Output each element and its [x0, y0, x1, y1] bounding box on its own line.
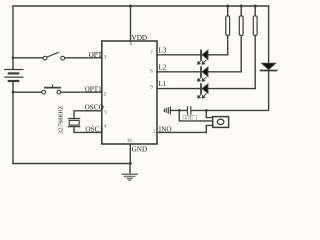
wire cap left — [170, 109, 187, 111]
wire branch to mic mid — [179, 110, 212, 121]
wire right rail lower — [191, 71, 268, 111]
node junction mic top branch — [205, 109, 208, 112]
node junction left-OPT1 — [12, 91, 15, 94]
svg-text:VDD: VDD — [132, 34, 148, 42]
wire OSC1 — [74, 127, 102, 133]
op IC U1 box — [102, 41, 157, 144]
wire left rail lower — [12, 81, 14, 164]
diode D4 — [261, 63, 277, 70]
wire L2 to R2 — [208, 71, 241, 73]
wire OPT1 row left — [13, 91, 42, 93]
svg-text:4.7U: 4.7U — [185, 116, 194, 121]
wire L2 row — [157, 71, 201, 73]
wire L3 row — [157, 54, 201, 56]
capacitor C1 4.7U — [188, 107, 191, 114]
resistor R3 — [253, 6, 257, 89]
svg-text:OSC1: OSC1 — [85, 126, 103, 134]
ground sideways (mic bias) — [164, 107, 170, 114]
wire L1 row — [157, 88, 201, 90]
LED D1 — [198, 50, 208, 64]
battery B1 — [5, 70, 23, 82]
wire OPT1 row right — [61, 91, 102, 93]
resistor R1 — [226, 6, 230, 55]
crystal Y1 32.768KHZ — [69, 119, 80, 127]
wire GND — [129, 144, 131, 164]
wire OPT row right — [65, 57, 102, 59]
svg-text:OSCO: OSCO — [85, 104, 104, 112]
wire left rail upper — [12, 6, 14, 70]
svg-text:OPT: OPT — [89, 51, 103, 59]
node junction cap-left branch — [178, 109, 181, 112]
node junction R3 top — [254, 5, 257, 8]
wire OPT row left — [13, 57, 43, 59]
wire INO row — [157, 131, 206, 133]
switch S2 (OPT1 pushbutton) — [42, 85, 61, 94]
resistor R2 — [239, 6, 243, 72]
wire mic lower pin to INO — [206, 125, 212, 132]
label box 4.7U — [183, 115, 197, 120]
svg-text:OPT1: OPT1 — [85, 85, 103, 93]
wire bottom rail — [13, 163, 130, 165]
svg-text:10: 10 — [127, 139, 132, 144]
svg-text:32.768KHZ: 32.768KHZ — [59, 105, 65, 133]
wire top rail — [13, 5, 269, 7]
LED D2 — [198, 67, 208, 81]
ground earth symbol — [122, 164, 137, 181]
node junction R2 top — [240, 5, 243, 8]
node junction R1 top — [226, 5, 229, 8]
microphone MK1 box — [213, 117, 229, 128]
svg-text:L2: L2 — [158, 64, 166, 72]
svg-text:GND: GND — [132, 146, 148, 154]
LED D3 — [198, 84, 208, 98]
wire VDD — [130, 6, 132, 41]
svg-text:INO: INO — [159, 126, 172, 134]
wire OSCO — [74, 111, 102, 119]
wire L3 to R1 — [208, 54, 228, 56]
switch S1 (OPT toggle) — [43, 52, 65, 60]
svg-text:L1: L1 — [158, 80, 166, 88]
node junction VDD top — [129, 5, 132, 8]
wire branch to mic upper pin — [206, 110, 212, 117]
svg-text:L3: L3 — [158, 46, 166, 54]
node junction left-OPT — [12, 56, 15, 59]
wire L1 to R3 — [208, 88, 255, 90]
node junction GND-bottom rail — [129, 162, 132, 165]
wire right rail upper — [268, 6, 270, 64]
